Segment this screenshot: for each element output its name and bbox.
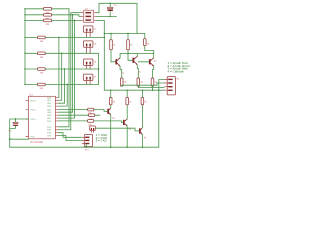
svg-text:MCLR: MCLR xyxy=(30,99,37,102)
connector SV1 xyxy=(82,135,93,152)
junction dots on left bus xyxy=(24,8,25,9)
wire K1 pin2 xyxy=(122,83,165,86)
wire K1 pin3 xyxy=(138,86,164,88)
IC pin names left column xyxy=(30,99,37,138)
jumper JP2 xyxy=(84,41,97,53)
wire riser v8 row3-down xyxy=(58,20,74,118)
transistor Q6 xyxy=(139,128,147,148)
wire top rail xyxy=(99,3,137,33)
svg-text:PIC16F628P: PIC16F628P xyxy=(30,141,44,144)
resistor RD2 xyxy=(58,114,100,121)
wire riser A xyxy=(98,53,100,84)
wire K1 pin1 from vertical xyxy=(159,80,165,148)
transistor Q1 xyxy=(115,54,125,79)
wire mid supply bus y33.5 xyxy=(104,33,145,35)
IC left pin stubs xyxy=(26,100,29,136)
resistor RC3 xyxy=(141,90,147,127)
transistor Q2 xyxy=(133,54,142,79)
wire bottom ground rail xyxy=(10,146,159,148)
svg-text:SV1: SV1 xyxy=(84,149,89,152)
IC right pin stubs xyxy=(55,97,58,135)
wire riser v6 S1pin1-down xyxy=(58,13,80,130)
svg-text:4 = Cathode: 4 = Cathode xyxy=(168,70,185,74)
svg-text:OSC2: OSC2 xyxy=(30,118,37,121)
wire row7 xyxy=(25,84,99,86)
text SV1 legend xyxy=(96,133,109,143)
wire row4 xyxy=(25,36,104,38)
resistor R1 xyxy=(44,8,52,11)
resistor RC2 xyxy=(126,90,132,119)
wire row1 xyxy=(25,8,69,10)
svg-text:VSS: VSS xyxy=(30,136,35,139)
wire S1 right pin2 xyxy=(97,15,117,17)
wire IC to SV1 pin2 xyxy=(58,136,82,141)
wire riser v5 row1-down xyxy=(58,9,69,127)
resistor R7 xyxy=(38,83,46,86)
transistor Q5 xyxy=(123,119,132,147)
resistor RD3 base Q5 xyxy=(58,120,123,127)
resistor R2 xyxy=(44,14,52,17)
wire IC bottom-left xyxy=(10,138,29,140)
wire row6 xyxy=(25,68,99,70)
capacitor C1 xyxy=(10,119,18,128)
wire IC to SV1 pin1 xyxy=(58,133,82,138)
resistor RE3 xyxy=(151,78,157,90)
jumper J5 base Q6 xyxy=(90,126,139,133)
wire mid rail y90.2 xyxy=(104,89,164,91)
jumper JP1 xyxy=(84,26,97,37)
jumper JP4 xyxy=(84,74,97,84)
svg-text:OSC1: OSC1 xyxy=(30,108,37,111)
resistor RB1 vertical xyxy=(110,34,116,62)
transistor Q3 xyxy=(138,58,157,78)
transistor Q4 xyxy=(107,108,115,148)
text legend xyxy=(168,61,191,73)
wire row2 xyxy=(25,15,81,17)
resistor RC1 xyxy=(109,90,115,107)
resistor R3 xyxy=(44,19,52,22)
resistor R5 xyxy=(38,52,46,55)
wire riser v7 row2-down xyxy=(58,15,72,112)
resistor RB3 vertical xyxy=(144,34,154,58)
wire riser v4 row7-to-pin4 xyxy=(58,85,67,107)
resistor R6 xyxy=(38,68,46,71)
wire riser v1 row4-to-pin1 xyxy=(57,37,60,97)
svg-text:3 = TXD: 3 = TXD xyxy=(96,139,108,143)
wire S1 right pin3 to B riser xyxy=(97,20,105,90)
resistor RE1 xyxy=(120,78,126,86)
IC U1 xyxy=(29,94,56,144)
wire riser v3 row6-to-pin3 xyxy=(58,69,64,103)
IC pin names right column xyxy=(47,96,52,137)
resistor RE2 xyxy=(137,78,143,86)
capacitor C2 xyxy=(108,3,113,16)
resistor RB2 vertical xyxy=(127,34,133,61)
wire row5 xyxy=(25,52,99,54)
wire emitter rail y53.5 xyxy=(120,53,154,55)
wire riser v2 row5-to-pin2 xyxy=(58,53,61,100)
connector K1 xyxy=(164,77,180,95)
resistor R4 xyxy=(38,36,46,39)
resistor RD1 base Q4 xyxy=(58,108,107,115)
wire row3 xyxy=(25,19,81,21)
wire IC left MCLR net xyxy=(10,119,29,147)
wire S1 right pin1 xyxy=(97,3,99,12)
node GND-left bus xyxy=(24,9,26,85)
jumper JP3 xyxy=(84,59,97,69)
